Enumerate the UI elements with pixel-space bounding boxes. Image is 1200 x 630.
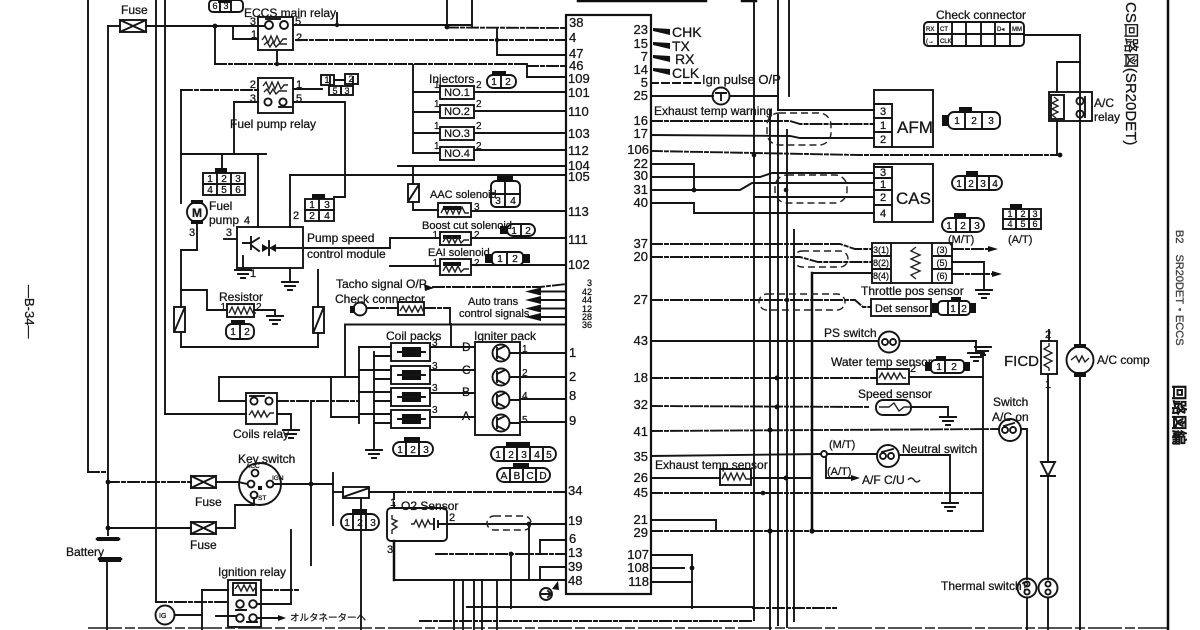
svg-text:29: 29 [634, 525, 648, 540]
svg-text:4: 4 [534, 450, 540, 461]
svg-text:2: 2 [410, 445, 416, 456]
svg-text:27: 27 [634, 292, 648, 307]
ground: coil packs [366, 450, 382, 458]
svg-text:Fuel: Fuel [209, 199, 232, 213]
wire: keyswitch to fusible O2 [333, 491, 343, 493]
wire: coil4 to igniter A [430, 416, 475, 418]
svg-text:6: 6 [212, 1, 217, 11]
wire: pin104 line [398, 165, 566, 167]
svg-text:1: 1 [434, 80, 440, 91]
wire: relay pin5 east to ECU area [293, 24, 471, 26]
svg-text:Fuel pump relay: Fuel pump relay [230, 117, 316, 131]
trunk vertical x778 lower [777, 115, 779, 625]
svg-text:Neutral switch: Neutral switch [902, 442, 977, 456]
coil pack 2 [359, 361, 438, 384]
coils relay feed L-path [219, 377, 359, 401]
svg-text:MM: MM [1012, 27, 1022, 33]
ECU box [566, 15, 651, 594]
svg-text:6: 6 [235, 185, 241, 196]
svg-text:2: 2 [880, 134, 886, 146]
wire: 46/109 feed line [215, 63, 527, 65]
svg-text:CAS: CAS [896, 189, 931, 208]
svg-text:CS回路図(SR20DET): CS回路図(SR20DET) [1122, 2, 1139, 145]
ECU right pin numbers [627, 22, 649, 589]
svg-text:1: 1 [880, 120, 886, 132]
connector (ECCS relay plug, top) [209, 0, 243, 12]
svg-text:1: 1 [880, 179, 886, 191]
wire: relay coil east dash [261, 589, 300, 591]
svg-text:Fuse: Fuse [190, 538, 217, 552]
svg-text:1: 1 [511, 226, 517, 237]
svg-text:109: 109 [568, 71, 590, 86]
svg-text:A/C comp: A/C comp [1097, 353, 1150, 367]
connector: AAC 4-pin [491, 176, 520, 207]
wire: throttle (3) out arrow [952, 248, 990, 250]
svg-text:Pump speed: Pump speed [307, 231, 374, 245]
svg-text:1: 1 [432, 258, 438, 269]
A/C comp [1067, 344, 1094, 377]
wire: NO.4 to pin112 [474, 149, 566, 151]
svg-text:3: 3 [432, 405, 438, 416]
diode symbol [1041, 462, 1055, 476]
svg-text:C: C [526, 471, 533, 482]
wire: FICD top stub [1048, 330, 1050, 341]
node: junction pin13 [509, 552, 514, 557]
svg-text:2: 2 [476, 80, 482, 91]
wire: A/C switch east drop [1021, 429, 1027, 579]
svg-text:2: 2 [951, 362, 957, 373]
wire: fuse F3 to key switch ST [216, 498, 254, 528]
svg-text:1: 1 [434, 99, 440, 110]
main vertical bus C [164, 0, 166, 414]
A/C relay [1049, 92, 1092, 121]
wire: 109 branch [527, 76, 566, 78]
wire: CAS 2 feed [754, 196, 874, 198]
svg-text:A/C on: A/C on [992, 410, 1029, 424]
svg-text:1: 1 [495, 450, 501, 461]
connector: igniter 5-pin [491, 442, 556, 461]
wire: pin28 signal arrow [540, 316, 566, 318]
connector: module 4-pin [305, 194, 334, 222]
svg-text:ST: ST [258, 495, 266, 502]
wire: speed sensor to ground [911, 407, 948, 415]
connector: boost 2-pin [500, 224, 535, 237]
svg-text:D: D [462, 340, 471, 354]
svg-text:43: 43 [634, 333, 648, 348]
wire: pin44 signal arrow [540, 299, 566, 301]
ground: module left [242, 256, 244, 270]
svg-text:—B-34—: —B-34— [22, 285, 37, 338]
svg-text:PS switch: PS switch [824, 326, 877, 340]
wire: coil3 to igniter B [430, 392, 475, 394]
wire: battery to fuse F2 [108, 481, 191, 483]
svg-text:Thermal switch?: Thermal switch? [941, 579, 1029, 593]
connector: det 2-pin [932, 297, 976, 315]
svg-text:2: 2 [296, 32, 302, 44]
svg-text:O2 Sensor: O2 Sensor [401, 499, 458, 513]
svg-text:45: 45 [634, 485, 648, 500]
wire: A/T branch [826, 457, 850, 478]
svg-text:3(1): 3(1) [873, 245, 889, 255]
injector NO.4 [413, 141, 482, 160]
wire: neutral switch to ground [899, 455, 950, 501]
svg-text:111: 111 [568, 232, 588, 247]
svg-text:3: 3 [423, 445, 429, 456]
svg-text:3: 3 [495, 196, 501, 207]
svg-text:2: 2 [968, 179, 974, 190]
wire: alternator circle to relay contact2 [175, 615, 236, 616]
svg-text:Ign pulse O/P: Ign pulse O/P [702, 72, 781, 87]
wire: pin 34 line [394, 490, 566, 492]
AFM unit [874, 90, 933, 147]
fusible link AAC [408, 184, 419, 202]
wire: igniter out 2 [510, 376, 566, 378]
svg-text:3: 3 [235, 174, 241, 185]
connector: injector 2-pin [487, 71, 516, 88]
fusible link (O2 feed) [343, 487, 369, 498]
trunk vertical x983 [982, 355, 984, 531]
svg-text:3: 3 [980, 179, 986, 190]
svg-text:41: 41 [634, 424, 648, 439]
wire: pin37 to throttle 1 [651, 244, 872, 249]
wire: pin16 to AFM 1 [651, 121, 874, 124]
top border segment [578, 0, 756, 2]
svg-text:2: 2 [512, 254, 518, 265]
wire: distribution bus y154 [181, 153, 266, 155]
svg-text:4: 4 [244, 215, 250, 227]
svg-text:34: 34 [568, 483, 582, 498]
fuel pump motor M [187, 200, 207, 224]
shield: throttle wires [794, 251, 848, 267]
svg-text:3: 3 [387, 544, 393, 556]
node: arrow mark pin48 [552, 581, 559, 590]
svg-text:18: 18 [634, 370, 648, 385]
svg-text:2: 2 [476, 121, 482, 132]
svg-text:Igniter pack: Igniter pack [474, 329, 537, 343]
wire: pin105 line [290, 174, 566, 176]
connector: fuel pump 6-pin [203, 168, 245, 196]
wire: frame corner to battery bus [88, 471, 108, 473]
svg-text:38: 38 [569, 15, 583, 30]
svg-text:19: 19 [568, 513, 582, 528]
svg-text:9: 9 [569, 413, 576, 428]
svg-text:1: 1 [230, 327, 236, 338]
wire: stub from top edge x447 [446, 0, 448, 27]
wire: pin108 [651, 567, 684, 569]
wire: relay pin1 east [293, 88, 322, 90]
svg-text:B: B [462, 385, 470, 399]
vertical: key feed down [310, 401, 312, 565]
bottom bus y621 [420, 620, 753, 622]
svg-text:3: 3 [974, 221, 980, 232]
wire: pin22 drop [651, 164, 694, 190]
wire: throttle (5) to ground [952, 262, 984, 288]
svg-text:4: 4 [992, 179, 998, 190]
svg-text:6: 6 [1032, 219, 1037, 229]
wire: NO.1 to pin101 [474, 91, 566, 93]
svg-text:1: 1 [569, 345, 576, 360]
svg-text:Water temp sensor: Water temp sensor [831, 355, 932, 369]
wire: EAI west stub [390, 265, 440, 267]
Det sensor [871, 299, 931, 316]
vertical: x692 collector [691, 555, 693, 608]
svg-text:40: 40 [634, 195, 648, 210]
svg-text:4: 4 [510, 196, 516, 207]
wire: pin29 collector bus [651, 530, 983, 532]
wire: coils relay left contact [219, 400, 246, 402]
svg-text:2: 2 [971, 116, 977, 127]
svg-text:17: 17 [634, 126, 648, 141]
svg-text:D◂: D◂ [997, 27, 1004, 33]
wire: coil2 to igniter C [430, 369, 475, 371]
trunk vertical x770 [769, 110, 771, 630]
wire: relay coil pin2 west [181, 89, 258, 91]
wire: pin42 signal arrow [540, 291, 566, 293]
wire: relay contact1 east [257, 603, 291, 605]
svg-text:8: 8 [569, 388, 576, 403]
wire: igniter out 1 [510, 352, 566, 354]
svg-text:1: 1 [936, 362, 942, 373]
wire: pin13 line [436, 553, 566, 555]
svg-text:Coils relay: Coils relay [233, 427, 289, 441]
svg-text:pump: pump [209, 213, 239, 227]
svg-text:Fuse: Fuse [195, 495, 222, 509]
svg-text:CLK: CLK [672, 65, 700, 81]
svg-text:1: 1 [956, 179, 962, 190]
connector: water temp 2-pin [925, 356, 970, 373]
svg-text:A: A [462, 409, 470, 423]
svg-text:relay: relay [1094, 110, 1120, 124]
bottom edge line [88, 627, 1168, 629]
svg-text:Throttle pos sensor: Throttle pos sensor [861, 284, 964, 298]
trunk vertical x794 [793, 230, 795, 621]
svg-text:110: 110 [568, 104, 589, 119]
svg-text:2: 2 [476, 99, 482, 110]
svg-text:5: 5 [295, 16, 301, 28]
wire: A/C relay coil loop [1057, 62, 1080, 92]
svg-text:3: 3 [189, 227, 195, 239]
svg-text:1: 1 [344, 518, 350, 529]
svg-text:2: 2 [505, 77, 511, 88]
svg-text:4: 4 [522, 391, 528, 402]
svg-text:105: 105 [568, 169, 590, 184]
svg-text:FICD: FICD [1004, 353, 1039, 370]
svg-text:26: 26 [634, 470, 648, 485]
connector: A/T 6-pin [1003, 204, 1041, 229]
wire: water temp to ground riser [909, 376, 983, 378]
check resistor box [398, 302, 425, 315]
svg-text:2: 2 [474, 230, 480, 241]
trunk vertical x812 (heavy) [811, 273, 814, 531]
svg-text:CLK: CLK [940, 39, 952, 45]
svg-text:Switch: Switch [993, 395, 1028, 409]
main vertical bus B [155, 0, 157, 601]
svg-text:4: 4 [880, 208, 886, 220]
svg-text:NO.2: NO.2 [444, 106, 470, 118]
wire: drop from pin19 wire [528, 524, 530, 580]
svg-text:39: 39 [568, 559, 582, 574]
battery [97, 538, 119, 541]
capacitor stub T at relay input [227, 26, 240, 38]
wire: fuel pump feed vertical [180, 90, 182, 203]
svg-text:2: 2 [960, 221, 966, 232]
svg-text:2: 2 [221, 174, 227, 185]
svg-text:1: 1 [434, 141, 440, 152]
svg-text:B2 SR20DET・ECCS: B2 SR20DET・ECCS [1173, 230, 1185, 346]
svg-text:1: 1 [220, 302, 226, 313]
svg-text:1: 1 [497, 254, 503, 265]
wire: pin41 to A/C switch [651, 429, 999, 431]
svg-text:Det sensor: Det sensor [875, 303, 929, 315]
svg-text:1: 1 [950, 304, 956, 315]
vertical: x333 [332, 473, 334, 525]
wire: pin6 L [540, 540, 566, 553]
shield: CAS wires [775, 175, 847, 203]
wire: 46 branch [526, 64, 528, 77]
wire: x497 drop to pin 47 [497, 28, 566, 55]
wire: pin5 Ign pulse stub [651, 82, 700, 84]
svg-text:(→: (→ [926, 39, 934, 45]
svg-text:6: 6 [569, 531, 576, 546]
svg-text:(A/T): (A/T) [1008, 234, 1032, 246]
Neutral switch [877, 445, 899, 467]
wire: relay pin2 to ECU pin 4 [296, 39, 566, 41]
wire: pin18 to water temp [651, 377, 877, 379]
svg-text:2: 2 [880, 192, 886, 204]
svg-text:AFM: AFM [897, 118, 933, 137]
svg-text:2: 2 [293, 210, 299, 222]
svg-text:3: 3 [880, 167, 886, 179]
wire: A/C comp down [1079, 377, 1081, 630]
svg-text:2: 2 [256, 302, 262, 313]
wire: O2 pin2 to pin19 [444, 522, 566, 524]
node: junction on pin19 wire [527, 522, 532, 527]
svg-text:2: 2 [910, 363, 916, 375]
svg-text:1: 1 [432, 230, 438, 241]
node: M/T branch circle [821, 451, 827, 457]
svg-text:48: 48 [568, 573, 582, 588]
svg-text:IG: IG [159, 613, 166, 620]
wire: pin35 to neutral switch [651, 454, 820, 456]
ECU left pin numbers [568, 15, 590, 588]
wire: resistor out to ground [254, 310, 275, 314]
wire: relay pin3 west [234, 101, 258, 103]
svg-text:1: 1 [309, 200, 315, 211]
wire: module pin2 feed from pin105 line [289, 175, 291, 227]
fusible link (left) [174, 307, 185, 332]
wire: module pin3 stub [224, 238, 237, 240]
wire: coils relay coil to ground [277, 414, 291, 428]
wire: coils relay right contact to coil bus [277, 400, 359, 402]
svg-text:2: 2 [961, 304, 967, 315]
wire: O2 shield corner to pin48 bus [393, 579, 395, 581]
wire: NO.2 to pin110 [474, 110, 566, 112]
wire: relay coil pin1 stub [233, 38, 258, 40]
svg-text:113: 113 [568, 204, 589, 219]
wire: pin31 to CAS 1 [651, 183, 874, 190]
wire: pin39 L [540, 567, 566, 580]
connector cluster (1 2 / 5 3) [321, 74, 358, 96]
svg-text:Tacho signal O/P: Tacho signal O/P [336, 277, 427, 291]
trunk vertical x1080 (A/C feed) [1079, 35, 1081, 347]
wire: x361 drop [360, 498, 362, 630]
svg-text:(6): (6) [937, 271, 948, 281]
svg-text:5: 5 [1020, 219, 1025, 229]
svg-text:ACC: ACC [246, 463, 260, 470]
svg-text:35: 35 [634, 449, 648, 464]
svg-text:control signals: control signals [459, 308, 530, 320]
svg-text:D: D [539, 471, 546, 482]
svg-text:4: 4 [207, 185, 213, 196]
fusible link (right) [313, 307, 324, 333]
wire: fuse F2 to key switch [216, 482, 247, 484]
svg-text:Check connector: Check connector [335, 292, 425, 306]
wire: throttle 4 feed [812, 272, 872, 274]
svg-text:NO.4: NO.4 [444, 148, 470, 160]
wire: module feed drop [257, 154, 259, 227]
svg-text:Battery: Battery [66, 545, 104, 559]
svg-text:5: 5 [221, 185, 227, 196]
svg-text:3: 3 [344, 86, 349, 96]
svg-text:30: 30 [634, 168, 648, 183]
left frame vertical bus [87, 0, 89, 472]
svg-text:C: C [462, 363, 471, 377]
TX pin wedge [653, 42, 670, 49]
svg-text:20: 20 [634, 249, 648, 264]
wire: igniter out 8 [510, 399, 566, 400]
connector: CAS 4-pin [952, 171, 1002, 190]
coil pack 3 [359, 383, 438, 406]
connector: M/T 3-pin [942, 213, 984, 232]
wire: check connector lead [367, 307, 398, 309]
wire: pin27 to det sensor [651, 300, 871, 307]
svg-text:1: 1 [954, 116, 960, 127]
trunk vertical x789 [788, 0, 790, 96]
ground: module right [289, 268, 291, 282]
injector NO.3 [413, 121, 482, 140]
wire: pin107 [651, 554, 692, 556]
wire: pin32 to speed sensor [651, 406, 870, 407]
connector: coils 3-pin [393, 437, 433, 456]
node: trunk junction dots [752, 153, 790, 496]
wire: PS switch to ground [900, 341, 976, 351]
svg-text:3: 3 [1032, 209, 1037, 219]
vertical: x291 feed [290, 530, 292, 604]
svg-text:2: 2 [1020, 209, 1025, 219]
svg-text:4: 4 [324, 211, 330, 222]
wire: NO.3 to pin103 [474, 132, 566, 134]
wire: O2 pin1 up to pin34 line [393, 492, 395, 508]
right frame vertical [1167, 0, 1170, 630]
svg-text:AAC solenoid: AAC solenoid [430, 189, 497, 201]
trunk vertical x754 [753, 0, 755, 620]
wire: battery to fuse F1 [108, 25, 120, 27]
wire: resistor feed from bus [181, 290, 227, 310]
svg-text:Check connector: Check connector [936, 8, 1026, 22]
injector NO.2 [413, 99, 482, 118]
svg-text:4: 4 [1007, 219, 1012, 229]
svg-text:1: 1 [491, 77, 497, 88]
wire: drop from y26 to 46-line [214, 26, 216, 64]
node: ECCS coil drop [276, 50, 278, 64]
svg-text:23: 23 [634, 22, 648, 37]
connector: O2 3-pin [341, 509, 379, 530]
node: junction at x215 [213, 24, 218, 29]
wire: pin48 bus [394, 579, 566, 581]
svg-text:8(2): 8(2) [873, 258, 889, 268]
svg-text:106: 106 [627, 142, 649, 157]
svg-text:36: 36 [582, 320, 592, 330]
